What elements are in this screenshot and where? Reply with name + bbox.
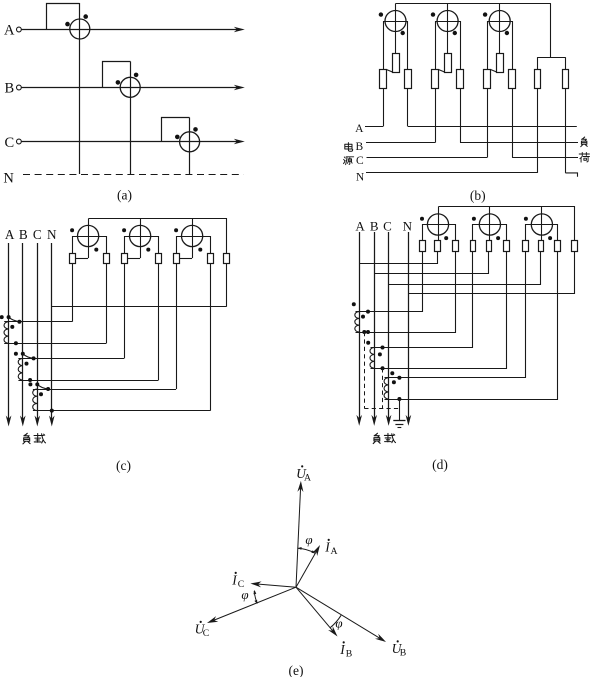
polarity dot TA-A — [352, 302, 356, 306]
terminal Wd3 right — [555, 241, 561, 252]
polarity dot W3 current coil — [175, 135, 180, 140]
terminal Wc3 left — [174, 254, 180, 264]
polarity dot TA-B — [378, 352, 382, 356]
label fu (load) — [581, 137, 588, 147]
polarity dot Wd3 a — [524, 217, 528, 221]
arrow feeder A to load — [356, 415, 362, 426]
wire CT route 1 — [356, 252, 423, 312]
junction dot TA-A line tap — [7, 315, 11, 319]
wire TA-A secondary top — [4, 321, 72, 323]
terminal Wc2 left — [122, 254, 128, 264]
wire feeder C — [388, 232, 390, 419]
junction dot TA-C line tap — [35, 382, 39, 386]
terminal Wd2 middle — [487, 241, 492, 252]
polarity dot TA-B secondary — [25, 362, 29, 366]
arrow feeder C to load — [386, 415, 392, 426]
svg-text:C: C — [203, 628, 209, 639]
wire meter lead 3 — [124, 263, 126, 358]
wire P1 left lead — [383, 21, 385, 69]
resistor R4 — [535, 70, 541, 89]
node C terminal — [17, 139, 22, 144]
arrow feeder B to load — [20, 416, 26, 427]
polarity dot TA-A secondary — [10, 325, 14, 329]
meter Wc3 element — [182, 225, 203, 246]
wire voltage tap N — [409, 252, 575, 294]
wire Wc2 current coil loop — [125, 237, 159, 254]
svg-text:φ: φ — [335, 616, 342, 631]
svg-text:C: C — [383, 218, 392, 233]
wire artificial-neutral bridge — [537, 57, 565, 59]
meter P2 element — [437, 11, 458, 32]
polarity dot W2 voltage coil — [134, 73, 139, 78]
resistor P3 voltage (middle) — [497, 54, 504, 73]
polarity dot TA-C secondary — [39, 392, 43, 396]
svg-text:N: N — [3, 170, 14, 186]
wire N source segment — [366, 172, 537, 174]
meter P1 element — [385, 11, 406, 32]
svg-text:C: C — [33, 227, 42, 242]
polarity dot W1 voltage coil — [83, 14, 88, 19]
wire voltage common bus (top) — [439, 207, 575, 241]
phasor I_B — [296, 587, 336, 634]
wire R4 lower lead to N — [537, 89, 539, 173]
wire common voltage bus (top) — [396, 3, 551, 5]
polarity dot P3 b — [505, 31, 509, 35]
arrow feeder N to load — [406, 415, 412, 426]
wire feeder N — [408, 232, 410, 419]
polarity dot Wc3 a — [174, 228, 178, 232]
polarity dot Wc1 a — [70, 228, 74, 232]
svg-text:N: N — [47, 227, 57, 242]
wire P3 left lead lower — [487, 89, 489, 158]
wire meter lead 4 — [158, 263, 160, 380]
wire P2 right lead lower — [460, 89, 462, 143]
wattmeter W1 element — [70, 19, 90, 39]
wire CT route 4 — [371, 252, 507, 369]
wire P2 right lead — [460, 21, 462, 69]
resistor P1 voltage (middle) — [393, 54, 400, 73]
resistor R5 — [563, 70, 569, 89]
svg-text:N: N — [356, 171, 365, 183]
polarity dot TA-B — [366, 341, 370, 345]
polarity dot TA-C — [392, 380, 396, 384]
CT TA-B secondary winding — [18, 358, 23, 380]
polarity dot W3 voltage coil — [193, 127, 198, 132]
wire Wc1 voltage link — [75, 258, 88, 260]
polarity dot TA-C primary — [28, 382, 32, 386]
wire route N to common — [52, 306, 227, 308]
wire artificial-neutral drop — [550, 4, 552, 58]
wire dashed common earthing link — [364, 408, 399, 410]
angle arc phi A — [297, 548, 315, 553]
svg-text:φ: φ — [305, 532, 312, 547]
wire CT route 2 — [356, 252, 456, 333]
svg-text:A: A — [304, 473, 311, 484]
wire P2 voltage coil drop — [447, 4, 449, 54]
wire feeder B — [22, 243, 24, 420]
polarity dot TA-C — [390, 371, 394, 375]
resistor P2 voltage (middle) — [445, 54, 452, 73]
wire B load segment — [460, 142, 578, 144]
junction dot TA-B top lead — [32, 356, 36, 360]
resistor P1 left — [380, 70, 387, 89]
wattmeter W1 voltage loop — [47, 4, 80, 30]
svg-text:A: A — [355, 218, 365, 233]
junction dot TA-C — [397, 397, 401, 401]
wire P2 current coil line — [435, 21, 460, 23]
wire Wc2 voltage coil drop — [140, 219, 142, 259]
wire R5 lead — [565, 57, 567, 69]
svg-text:(e): (e) — [289, 663, 304, 677]
wire P2 left lead lower — [435, 89, 437, 143]
svg-text:(a): (a) — [117, 188, 132, 203]
wire P3 voltage coil drop — [499, 4, 501, 54]
label zai (load) — [384, 433, 395, 442]
wire feeder N — [51, 243, 53, 420]
svg-text:B: B — [355, 141, 363, 153]
polarity dot Wd3 b — [548, 236, 552, 240]
wire R4 lead — [537, 57, 539, 69]
wire dashed link from TA-B common — [382, 368, 384, 408]
wire voltage tap C — [389, 252, 541, 285]
terminal Wd2 left — [471, 241, 476, 252]
junction dot TA-B line tap — [21, 352, 25, 356]
ground — [393, 420, 405, 422]
svg-text:A: A — [4, 22, 15, 38]
wattmeter W3 element — [180, 132, 200, 152]
polarity dot Wc3 b — [198, 248, 202, 252]
wire P1 resistor link (diagonal) — [387, 70, 393, 72]
wattmeter W2 element — [120, 77, 140, 97]
arrow phase A — [234, 27, 245, 33]
svg-text:(d): (d) — [432, 457, 448, 472]
terminal Wd1 right — [453, 241, 459, 252]
polarity dot TA-A — [361, 315, 365, 319]
wire Wc1 current coil loop — [73, 237, 107, 254]
CT TA-A tap diagonal — [9, 317, 20, 322]
wire TA-A secondary bottom — [4, 343, 106, 345]
wire voltage tap B — [375, 252, 489, 274]
svg-text:(b): (b) — [470, 188, 486, 203]
junction dot TA-A — [362, 330, 366, 334]
polarity dot P2 b — [453, 31, 457, 35]
resistor P1 right — [405, 70, 412, 89]
junction dot TA-B — [381, 366, 385, 370]
arrow feeder N to load — [49, 416, 55, 427]
wire P2 left lead — [435, 21, 437, 69]
svg-text:B: B — [346, 649, 352, 660]
svg-text:C: C — [4, 135, 14, 151]
wire neutral N (dashed) — [23, 174, 244, 176]
junction dot TA-C top lead — [46, 387, 50, 391]
polarity dot Wc2 a — [122, 228, 126, 232]
svg-text:B: B — [400, 648, 406, 659]
wire P3 right lead lower — [512, 89, 514, 158]
CT TA-B tap diagonal — [23, 354, 34, 359]
wire feeder B — [374, 232, 376, 419]
phasor U_B — [296, 587, 383, 640]
wire C load segment — [512, 157, 578, 159]
label dian (source) — [345, 143, 353, 152]
polarity dot Wc1 b — [94, 248, 98, 252]
node A terminal — [17, 27, 22, 32]
wattmeter W3 voltage loop — [162, 118, 190, 142]
polarity dot TA-A bottom — [14, 341, 18, 345]
wire P3 right lead — [512, 21, 514, 69]
wire feeder C — [37, 243, 39, 420]
svg-text:B: B — [370, 218, 379, 233]
wire CT route 3 — [371, 252, 473, 348]
wire A meter tap — [383, 126, 385, 128]
wire Wd2 current coil loop — [473, 225, 507, 241]
arrow phase B — [234, 85, 245, 91]
arrow feeder A to load — [6, 416, 12, 427]
resistor P2 right — [457, 70, 464, 89]
wire Wc3 voltage coil drop — [192, 219, 194, 259]
resistor P3 left — [484, 70, 491, 89]
wire N load segment — [565, 173, 577, 177]
wire meter lead 1 — [72, 263, 74, 322]
wire Wd3 current coil loop — [526, 225, 558, 241]
svg-text:B: B — [4, 81, 14, 97]
CT TA-A secondary winding — [355, 312, 359, 332]
polarity dot TA-B primary — [14, 352, 18, 356]
terminal Wc2 right — [156, 254, 162, 264]
wire meter lead 5 — [176, 263, 178, 389]
wire P3 current coil line — [487, 21, 512, 23]
meter Wd3 element — [531, 214, 552, 235]
svg-text:C: C — [356, 155, 364, 167]
wire Wd1 current coil loop — [423, 225, 456, 241]
terminal Wc1 right — [104, 254, 110, 264]
wire B source segment — [366, 142, 435, 144]
polarity dot P2 a — [431, 12, 435, 16]
wire P3 left lead — [487, 21, 489, 69]
resistor P2 left — [432, 70, 439, 89]
wire voltage tap A — [360, 252, 438, 264]
polarity dot Wd2 b — [496, 236, 500, 240]
junction dot TA-C — [397, 376, 401, 380]
label zai (load) — [34, 433, 45, 443]
angle arc phi C — [254, 591, 257, 603]
terminal Wd3 middle — [539, 241, 544, 252]
label yuan (source) — [344, 157, 354, 165]
wire TA-C secondary bottom — [33, 410, 211, 412]
meter Wd2 element — [479, 214, 500, 235]
terminal Wd1 middle — [435, 241, 441, 252]
wire TA-B secondary bottom — [18, 380, 158, 382]
phasor U_C — [210, 587, 296, 622]
wire Wc3 current coil loop — [177, 237, 211, 254]
wire CT route 5 — [385, 252, 526, 378]
terminal common (4th) — [224, 254, 230, 264]
arrow phase C — [234, 139, 245, 145]
polarity dot Wd1 a — [420, 217, 424, 221]
phasor I_A — [296, 548, 319, 588]
svg-text:(c): (c) — [116, 458, 131, 473]
wire P1 right lead — [407, 21, 409, 69]
polarity dot TA-A primary — [0, 315, 4, 319]
wire P1 left lead lower — [383, 89, 385, 127]
terminal Wc3 right — [208, 254, 214, 264]
wire feeder A — [8, 243, 10, 420]
meter P3 element — [489, 11, 510, 32]
wire common terminal to N route — [226, 263, 228, 307]
CT TA-C secondary winding — [384, 378, 389, 399]
meter Wc1 element — [78, 225, 99, 246]
wire A source segment — [365, 126, 383, 128]
CT TA-A secondary winding — [4, 322, 9, 344]
polarity dot Wd2 a — [472, 217, 476, 221]
wire meter lead 6 — [210, 263, 212, 411]
label fu (load) — [23, 433, 30, 444]
wire P2 resistor link (diagonal) — [439, 70, 445, 72]
wire P1 current coil line — [383, 21, 408, 23]
polarity dot P1 b — [401, 31, 405, 35]
node B terminal — [17, 85, 22, 90]
junction dot TA-A — [366, 310, 370, 314]
svg-text:A: A — [330, 546, 337, 557]
wire TA-B secondary top — [18, 358, 124, 360]
label he (load) — [579, 152, 589, 162]
phasor U_A — [296, 484, 301, 587]
phasor I_C — [253, 584, 296, 587]
polarity dot P1 a — [379, 12, 383, 16]
wire phase B — [21, 87, 237, 89]
wire P1 right lead lower — [407, 89, 409, 127]
arrow feeder C to load — [35, 416, 41, 427]
wire W2 voltage coil to N — [130, 62, 132, 175]
svg-text:A: A — [5, 227, 15, 242]
wire Wd1 voltage coil drop — [438, 207, 440, 241]
junction dot TA-C to N — [50, 409, 54, 413]
polarity dot P3 a — [483, 12, 487, 16]
CT TA-C tap diagonal — [37, 384, 48, 389]
wire CT route 6 — [385, 252, 558, 400]
terminal Wd3 left — [523, 241, 529, 252]
svg-text:N: N — [403, 218, 413, 233]
wire TA-C secondary top — [33, 389, 176, 391]
svg-text:B: B — [19, 227, 28, 242]
wire W3 voltage coil to N — [189, 118, 191, 175]
junction dot TA-A top lead — [17, 320, 21, 324]
svg-text:φ: φ — [241, 587, 248, 602]
junction dot TA-B — [381, 346, 385, 350]
wire P1 voltage coil drop — [395, 4, 397, 54]
polarity dot TA-B bottom — [28, 378, 32, 382]
wire W1 voltage coil to N — [79, 3, 81, 174]
wire Wc2 voltage link — [127, 258, 140, 260]
wire feeder A — [359, 232, 361, 419]
meter Wc2 element — [130, 225, 151, 246]
wire voltage common bus (top) — [89, 219, 227, 254]
resistor P3 right — [509, 70, 516, 89]
CT TA-C secondary winding — [33, 389, 38, 411]
angle arc phi B — [330, 615, 341, 628]
wire dashed link from TA-A common — [364, 332, 366, 408]
wire phase A — [21, 29, 237, 31]
svg-text:A: A — [355, 123, 364, 135]
wire phase C — [21, 141, 237, 143]
polarity dot W2 current coil — [116, 80, 121, 85]
polarity dot W1 current coil — [65, 22, 70, 27]
wire A load segment — [408, 126, 577, 128]
wire Wd2 voltage coil drop — [489, 207, 491, 241]
wire Wc3 voltage link — [179, 258, 192, 260]
wattmeter W2 voltage loop — [103, 62, 131, 88]
label fu (load) — [373, 433, 380, 443]
arrow feeder B to load — [371, 415, 377, 426]
wire Wc1 voltage coil drop — [88, 219, 90, 259]
meter Wd1 element — [427, 214, 448, 235]
wire C source segment — [367, 157, 488, 159]
junction dot TA-A — [366, 330, 370, 334]
wire Wd3 voltage coil drop — [541, 207, 543, 241]
terminal Wc1 left — [70, 254, 76, 264]
wire meter lead 2 — [106, 263, 108, 343]
wire P3 resistor link (diagonal) — [491, 70, 497, 72]
polarity dot Wd1 b — [444, 236, 448, 240]
CT TA-B secondary winding — [370, 348, 374, 369]
terminal Wd2 right — [504, 241, 510, 252]
wire R5 lower lead to N — [565, 89, 567, 173]
terminal Wd1 left — [420, 241, 426, 252]
polarity dot Wc2 b — [146, 248, 150, 252]
terminal common (10th) — [572, 241, 578, 252]
wire TA-C common to earth — [399, 399, 401, 421]
